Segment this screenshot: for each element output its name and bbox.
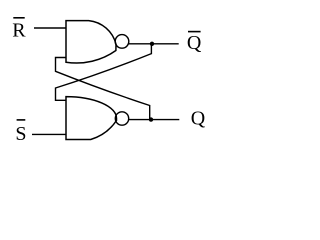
nand gate U1 output bubble	[115, 35, 129, 49]
node S_bar input label	[15, 120, 26, 145]
nand gate U2 output bubble	[115, 112, 128, 125]
svg-text:R: R	[12, 20, 26, 42]
wire U1 output to Q_bar	[129, 43, 179, 45]
wire R_bar input	[34, 27, 66, 29]
node R_bar input label	[12, 18, 26, 42]
wire U2 output to Q	[129, 119, 180, 121]
wire feedback Q node to U1 lower input	[56, 58, 150, 120]
node Q_bar output label	[187, 32, 202, 55]
svg-text:Q: Q	[187, 32, 202, 54]
wire feedback Q_bar node to U2 upper input	[56, 44, 152, 100]
nand gate U2 body	[66, 97, 117, 140]
wire S_bar input	[32, 133, 66, 135]
svg-text:Q: Q	[191, 107, 206, 129]
nand gate U1 body	[66, 21, 116, 63]
svg-text:S: S	[15, 123, 26, 145]
junction dot Q node	[149, 117, 153, 121]
junction dot Q_bar node	[150, 42, 154, 46]
